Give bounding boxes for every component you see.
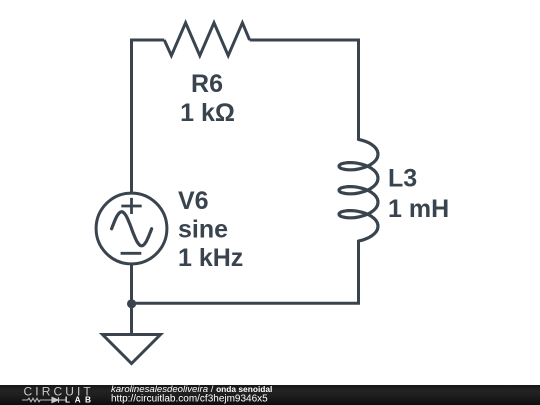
wire right bottom from L3 to bottom rail xyxy=(132,241,359,303)
logo diode xyxy=(52,397,66,402)
V6 sine wave xyxy=(112,212,152,246)
svg-text:L3: L3 xyxy=(388,165,417,193)
voltage source V6 circle xyxy=(96,193,167,264)
svg-text:1 kHz: 1 kHz xyxy=(178,244,243,272)
svg-text:LAB: LAB xyxy=(65,395,96,405)
svg-text:R6: R6 xyxy=(191,70,223,98)
ground symbol xyxy=(103,335,161,364)
wire top-right from resistor to L3 xyxy=(250,40,359,140)
resistor R6 xyxy=(164,23,249,56)
inductor L3 coil xyxy=(339,139,378,241)
wire rail to ground xyxy=(130,303,133,333)
V6 plus sign xyxy=(121,198,141,214)
svg-text:sine: sine xyxy=(178,216,228,244)
wire V6 bottom to rail xyxy=(130,263,133,303)
svg-text:http://circuitlab.com/cf3hejm9: http://circuitlab.com/cf3hejm9346x5 xyxy=(111,394,268,405)
logo resistor squiggle xyxy=(22,398,52,402)
V6 minus sign xyxy=(121,252,142,255)
svg-text:1 mH: 1 mH xyxy=(388,195,449,223)
svg-text:V6: V6 xyxy=(178,187,209,215)
junction node dot xyxy=(127,299,136,308)
wire top-left from resistor to V6 xyxy=(132,40,165,194)
svg-text:1 kΩ: 1 kΩ xyxy=(180,99,235,127)
